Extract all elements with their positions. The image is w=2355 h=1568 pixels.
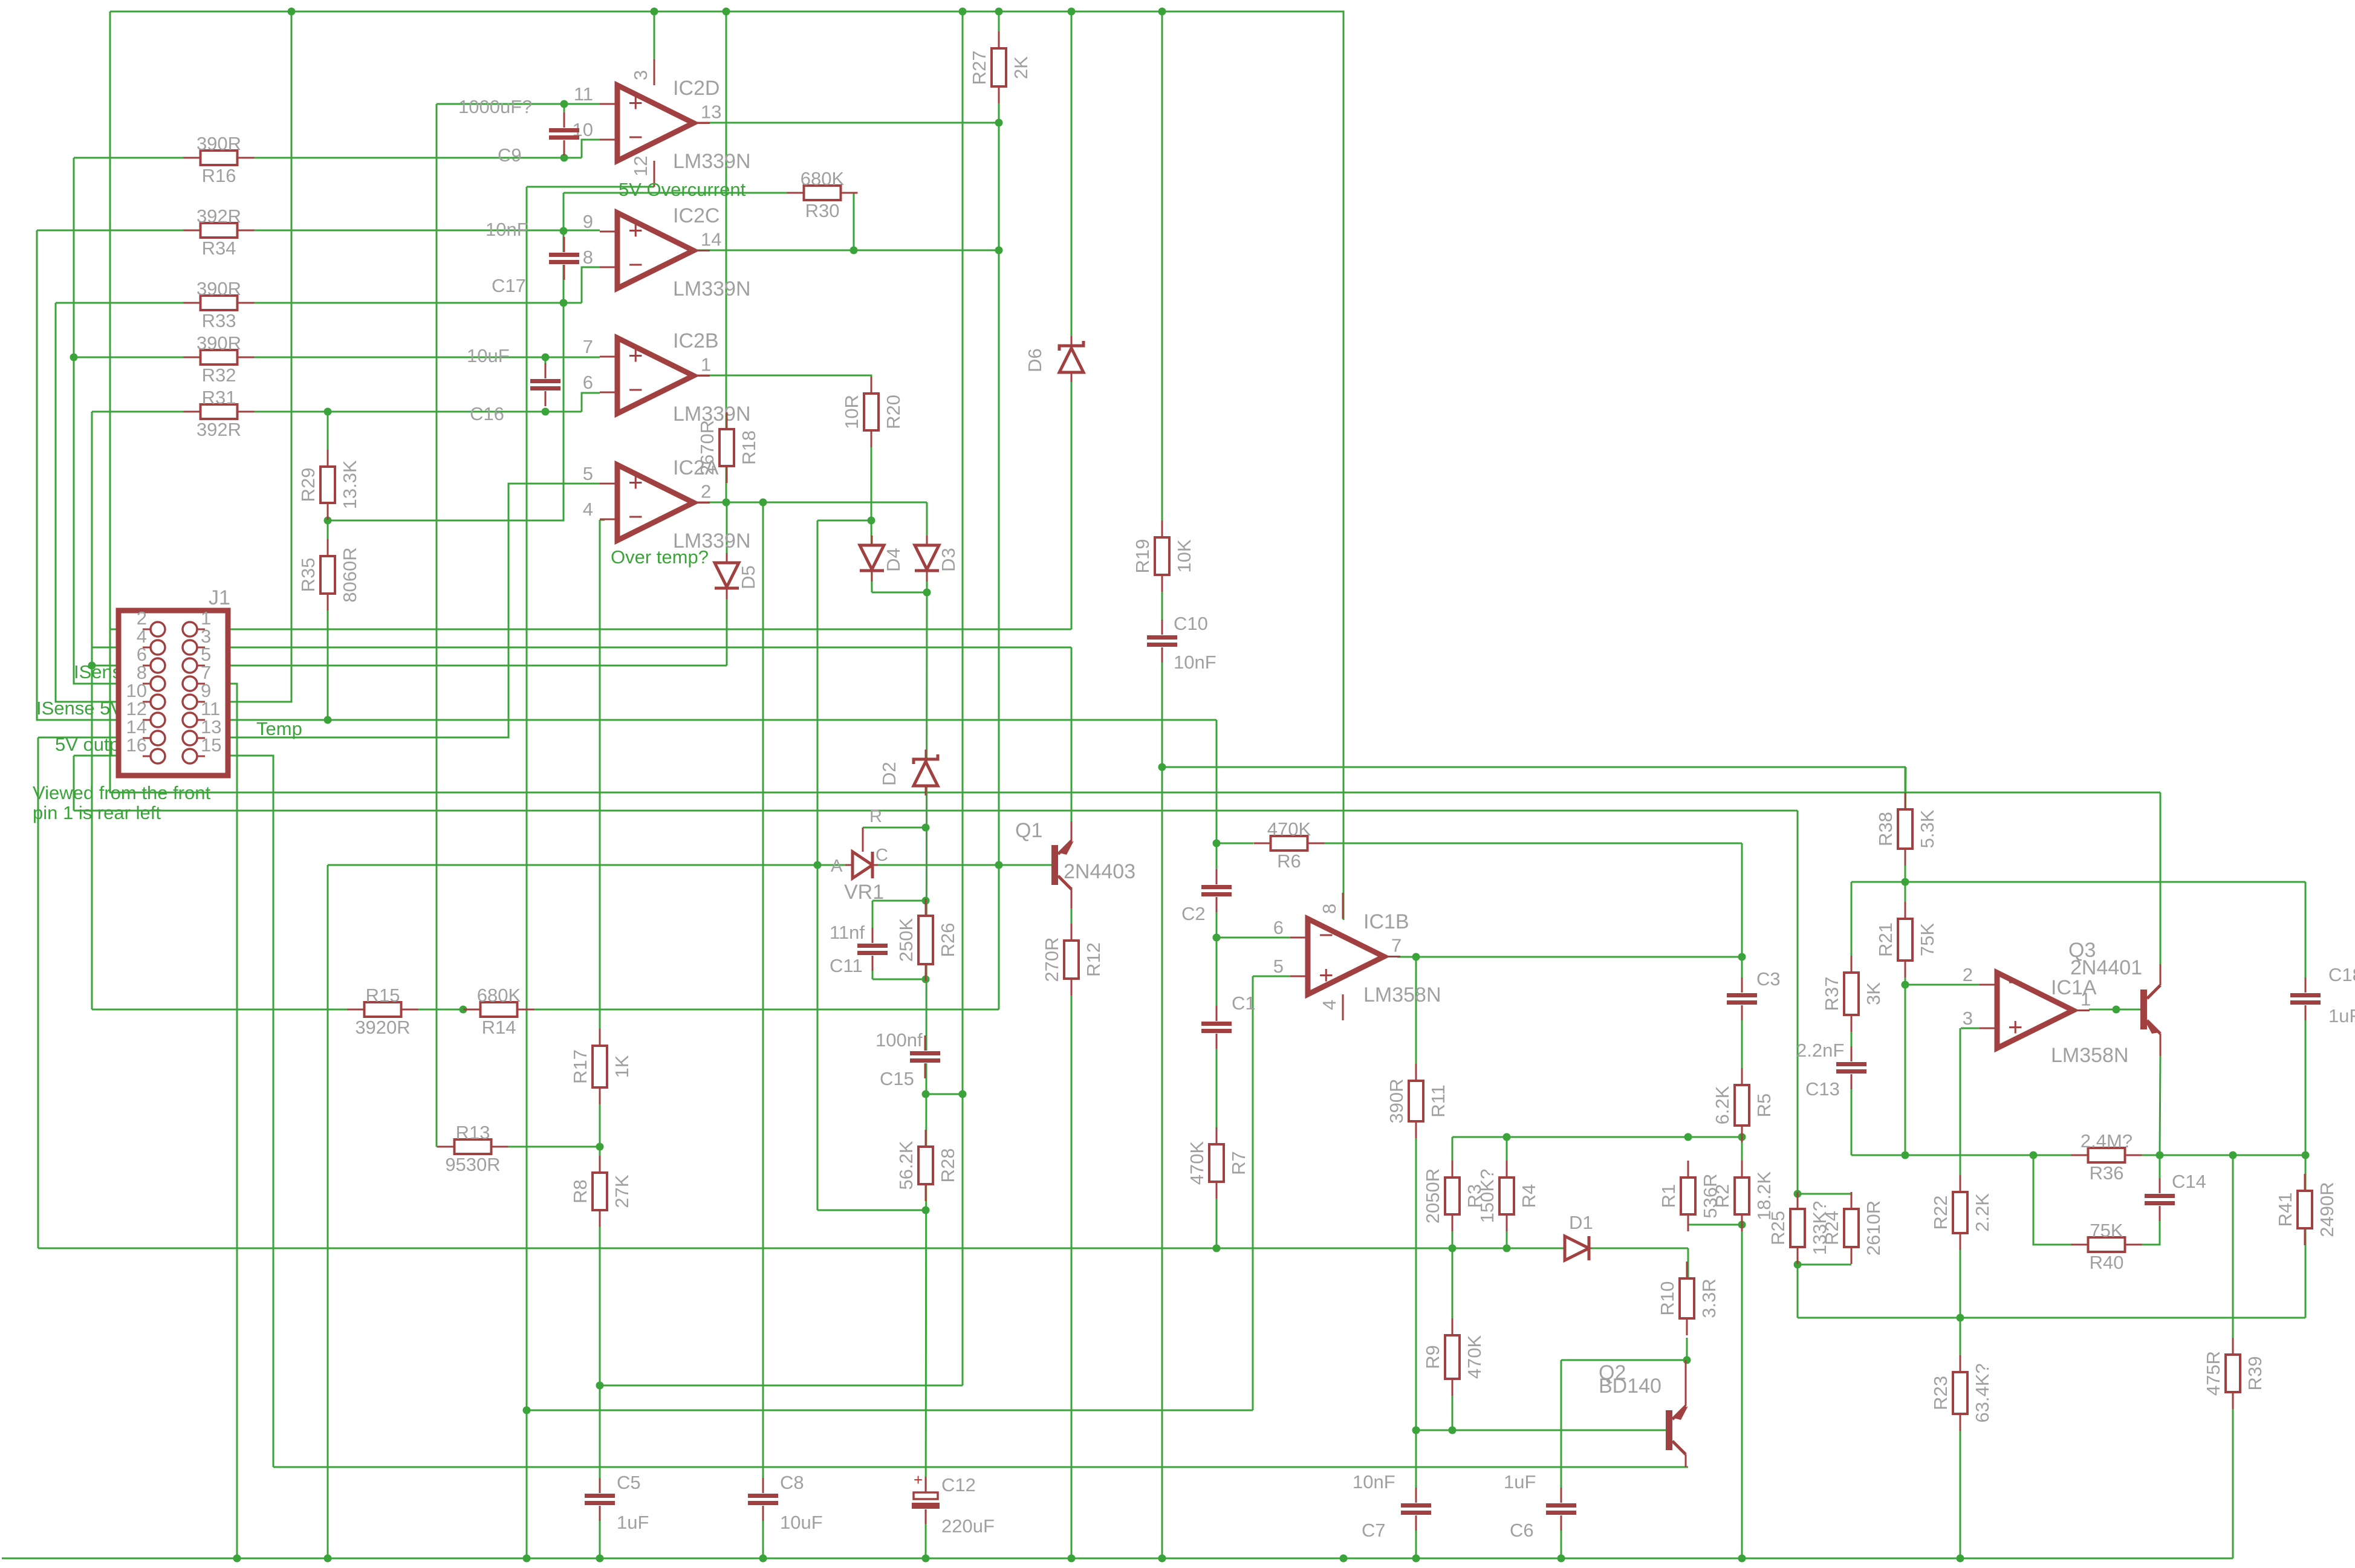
junction xyxy=(922,976,930,983)
wire GND rail y=2578 xyxy=(2,1558,2233,1560)
wire IC2 pin12 row y=309 xyxy=(527,186,654,188)
svg-text:−: − xyxy=(1319,921,1334,949)
junction xyxy=(995,861,1003,869)
wire Q2 emitter row y=2427 xyxy=(273,1466,1688,1468)
resistor R3 xyxy=(1422,1161,1485,1231)
resistor R25 xyxy=(1767,1192,1830,1264)
svg-text:Viewed from the front: Viewed from the front xyxy=(33,782,210,803)
svg-text:Temp: Temp xyxy=(256,718,302,739)
wire x=992 down R17/R8/C5 xyxy=(599,520,601,1558)
svg-text:390R: 390R xyxy=(197,133,241,154)
svg-text:392R: 392R xyxy=(197,206,241,227)
svg-text:2670R: 2670R xyxy=(697,420,718,475)
svg-text:C1: C1 xyxy=(1232,993,1256,1014)
svg-text:16: 16 xyxy=(126,734,147,756)
svg-text:390R: 390R xyxy=(197,278,241,299)
svg-text:D4: D4 xyxy=(883,548,904,572)
wire x=3813 C18/R41 column xyxy=(2305,882,2307,1318)
svg-text:IC1A: IC1A xyxy=(2051,976,2097,999)
svg-text:R34: R34 xyxy=(202,238,236,259)
op-amp IC2D power pins 3/12 xyxy=(630,59,654,187)
junction xyxy=(88,662,96,670)
resistor R17 xyxy=(570,1029,632,1104)
junction xyxy=(759,1555,767,1563)
svg-text:392R: 392R xyxy=(197,419,241,440)
svg-text:5V Overcurrent: 5V Overcurrent xyxy=(619,179,746,200)
svg-text:6: 6 xyxy=(583,372,593,393)
resistor R21 xyxy=(1875,902,1938,977)
svg-text:680K: 680K xyxy=(801,168,845,189)
svg-text:680K: 680K xyxy=(477,985,521,1006)
svg-text:1: 1 xyxy=(701,354,711,375)
junction xyxy=(1158,1555,1166,1563)
svg-text:14: 14 xyxy=(701,229,721,250)
svg-text:pin 1 is rear left: pin 1 is rear left xyxy=(33,802,161,823)
wire x=542 R29/R35 column xyxy=(327,412,329,720)
junction xyxy=(922,1207,930,1214)
op-amp IC2C comparator xyxy=(583,204,751,300)
wire VR1 ref to x=1531 xyxy=(863,827,926,829)
wire R6 right long y=1395 xyxy=(1324,843,1742,844)
svg-text:C13: C13 xyxy=(1805,1078,1840,1100)
op-amp IC1B xyxy=(1273,910,1441,1006)
svg-text:R8: R8 xyxy=(570,1179,591,1204)
resistor R8 xyxy=(570,1156,632,1227)
svg-text:11: 11 xyxy=(574,83,593,105)
wire x=871 down to GND rail xyxy=(526,187,528,1558)
svg-text:R21: R21 xyxy=(1875,922,1896,957)
svg-text:R29: R29 xyxy=(297,468,319,502)
wire IC2B out to R20 xyxy=(693,375,871,520)
resistor R4 xyxy=(1476,1161,1539,1231)
svg-text:1uF: 1uF xyxy=(1504,1471,1536,1492)
svg-text:C6: C6 xyxy=(1510,1520,1534,1541)
wire x=1262 down to C8/GND xyxy=(762,502,764,1558)
svg-text:220uF: 220uF xyxy=(941,1515,995,1537)
diode D1 xyxy=(1565,1212,1593,1260)
wire J1 pin1 y=1041 xyxy=(198,629,1071,630)
junction xyxy=(1503,1133,1511,1141)
resistor R1 xyxy=(1658,1161,1721,1231)
svg-text:C5: C5 xyxy=(617,1472,641,1493)
wire IC1A out to Q3 base xyxy=(2089,1009,2140,1011)
wire Q2 base row y=2366 xyxy=(1416,1430,1666,1431)
wire IC2B pin6 row xyxy=(1216,937,1290,939)
junction xyxy=(324,716,332,724)
svg-text:10K: 10K xyxy=(1174,539,1195,572)
wire J1 pin7 to GND rail xyxy=(198,684,237,1558)
svg-text:R10: R10 xyxy=(1657,1281,1678,1316)
svg-text:R15: R15 xyxy=(366,985,400,1006)
wire IC2D output y=203 xyxy=(693,122,999,124)
junction xyxy=(922,897,930,905)
svg-text:+: + xyxy=(628,216,643,244)
svg-text:2.4M?: 2.4M? xyxy=(2081,1130,2132,1152)
junction xyxy=(1683,1356,1691,1364)
capacitor C15 xyxy=(910,1035,940,1078)
svg-text:1000uF?: 1000uF? xyxy=(458,96,532,117)
junction xyxy=(723,499,730,507)
wire IC2A pin4 stub xyxy=(600,519,605,521)
wire x=1531 long column xyxy=(926,592,927,1558)
junction xyxy=(1902,878,1909,886)
resistor R37 xyxy=(1821,956,1884,1032)
svg-text:1uF: 1uF xyxy=(2328,1005,2355,1026)
svg-text:10nF: 10nF xyxy=(1174,652,1216,673)
svg-text:D5: D5 xyxy=(738,565,759,589)
resistor R38 xyxy=(1875,792,1938,866)
wire R28 bottom row y=2002 xyxy=(817,1210,926,1211)
svg-text:2.2K: 2.2K xyxy=(1972,1193,1993,1232)
svg-text:R18: R18 xyxy=(738,430,759,465)
connector J1 xyxy=(119,611,228,776)
wire IC2D pin11 y=172 xyxy=(437,103,600,105)
svg-text:9: 9 xyxy=(583,211,593,232)
svg-text:R12: R12 xyxy=(1083,942,1104,977)
svg-text:D6: D6 xyxy=(1024,348,1045,372)
svg-text:R2: R2 xyxy=(1712,1184,1733,1208)
capacitor C13 xyxy=(1836,1046,1866,1089)
wire to R10 top xyxy=(1687,1248,1689,1278)
wire x=542b down to GND xyxy=(327,865,329,1558)
svg-text:C: C xyxy=(875,846,888,865)
svg-text:LM339N: LM339N xyxy=(673,277,751,300)
wire D4/D3 bottom join xyxy=(872,592,927,594)
wire VR1 anode row y=1431 xyxy=(328,864,845,866)
junction xyxy=(560,100,568,108)
capacitor C11 xyxy=(857,928,888,971)
svg-text:J1: J1 xyxy=(209,586,230,609)
wire x=3242 R22/R23 column xyxy=(1960,1028,1961,1558)
svg-text:−: − xyxy=(2008,968,2023,996)
wire J1 pin16 stub xyxy=(74,755,151,757)
svg-text:5: 5 xyxy=(1273,956,1284,977)
resistor R22 xyxy=(1930,1175,1993,1250)
svg-text:C16: C16 xyxy=(470,403,504,424)
transistor Q2 BD140 xyxy=(1599,1360,1688,1467)
wire R1/R2 bottoms xyxy=(1688,1224,1742,1226)
svg-text:63.4K?: 63.4K? xyxy=(1972,1363,1993,1422)
junction xyxy=(233,1555,241,1563)
svg-text:−: − xyxy=(628,123,643,151)
svg-text:6: 6 xyxy=(1273,917,1284,938)
wire R18 column x=1201 xyxy=(726,11,727,502)
svg-text:R28: R28 xyxy=(937,1148,958,1183)
junction xyxy=(560,227,568,235)
svg-text:−: − xyxy=(628,375,643,404)
junction xyxy=(1738,1133,1746,1141)
junction xyxy=(959,1090,967,1098)
resistor R12 xyxy=(1041,924,1104,996)
wire y=2333 row xyxy=(527,1410,1253,1411)
capacitor C1 xyxy=(1201,993,1256,1049)
wire y=861 to x=932 riser xyxy=(328,193,564,520)
transistor Q1 2N4403 xyxy=(1015,819,1135,909)
svg-text:3: 3 xyxy=(1963,1008,1973,1029)
wire x=1592 long column xyxy=(962,11,964,1385)
wire R38 top link xyxy=(1905,767,1906,849)
resistor R24 xyxy=(1821,1192,1884,1264)
junction xyxy=(922,1555,930,1563)
svg-text:1uF: 1uF xyxy=(617,1512,649,1533)
svg-text:+: + xyxy=(628,341,643,369)
svg-text:R: R xyxy=(869,807,882,826)
junction xyxy=(1213,934,1221,942)
wire step to IC2C pin8 xyxy=(582,267,600,303)
svg-text:250K: 250K xyxy=(895,918,917,962)
wire x=2072 down xyxy=(1252,976,1254,1410)
svg-text:R26: R26 xyxy=(937,923,958,957)
junction xyxy=(1558,1555,1565,1563)
wire R40/C14 link xyxy=(2033,1155,2160,1245)
wire x=152 down to R15 row xyxy=(91,412,93,1009)
capacitor C17 xyxy=(486,219,579,296)
junction xyxy=(1213,1245,1221,1252)
junction xyxy=(959,8,967,16)
svg-text:9530R: 9530R xyxy=(445,1154,500,1175)
junction xyxy=(324,1555,332,1563)
junction xyxy=(995,247,1003,254)
wire C11 top pin xyxy=(872,901,874,931)
junction xyxy=(651,8,658,16)
resistor R2 xyxy=(1712,1161,1775,1231)
wire to D3 xyxy=(926,502,928,592)
junction xyxy=(1449,1427,1457,1434)
wire 5V-output row y=1341 xyxy=(74,810,1798,812)
svg-text:C12: C12 xyxy=(941,1474,976,1495)
junction xyxy=(1957,1555,1964,1563)
svg-text:−: − xyxy=(628,250,643,279)
wire x=2012 C2/C1/R7 column xyxy=(1216,720,1218,1248)
svg-text:C10: C10 xyxy=(1174,613,1208,634)
svg-text:11nf: 11nf xyxy=(830,922,865,943)
svg-text:R25: R25 xyxy=(1767,1211,1788,1245)
wire VCC left drop x=182 xyxy=(109,11,111,792)
svg-text:R32: R32 xyxy=(202,364,236,386)
wire IC1B output y=1583 xyxy=(1397,956,1742,958)
svg-text:R27: R27 xyxy=(969,51,990,85)
svg-text:R16: R16 xyxy=(202,165,236,186)
wire x=2342 R11/C7 column xyxy=(1415,957,1417,1558)
wire J1 pin9 up to bus xyxy=(198,11,291,702)
resistor R40 xyxy=(2071,1220,2142,1273)
svg-text:VR1: VR1 xyxy=(844,881,884,904)
wire IC2A output y=831 xyxy=(693,502,927,504)
wire C17 top pin link xyxy=(563,231,565,241)
junction xyxy=(1794,1261,1802,1269)
op-amp IC2A comparator xyxy=(583,456,751,552)
wire J1 pin2 stub xyxy=(110,629,151,630)
wire x=722 down to R13 xyxy=(436,104,438,1147)
junction xyxy=(596,1555,604,1563)
wire R15/R14 row y=1670 xyxy=(92,1009,999,1011)
resistor R35 xyxy=(297,539,360,611)
svg-text:10uF: 10uF xyxy=(467,345,510,366)
junction xyxy=(324,517,332,525)
svg-text:R35: R35 xyxy=(297,558,319,592)
junction xyxy=(1738,1555,1746,1563)
svg-text:+: + xyxy=(628,88,643,117)
svg-text:R24: R24 xyxy=(1821,1211,1842,1245)
wire x=122b down xyxy=(73,756,75,811)
wire x=2582 C6 column xyxy=(1561,1360,1562,1558)
junction xyxy=(1503,1245,1511,1252)
junction xyxy=(923,589,931,597)
wire x=2492 R4 column xyxy=(1506,1137,1508,1248)
wire step to IC2B pin6 xyxy=(582,393,600,412)
wire R20 bottom to D4 xyxy=(871,520,872,592)
wire J1 pin6 stub xyxy=(92,665,151,667)
resistor R16 xyxy=(184,133,255,186)
junction xyxy=(1213,840,1221,847)
resistor R36 xyxy=(2071,1130,2142,1184)
wire VCC top bus + right drop to IC1B pin8 xyxy=(110,11,1343,920)
capacitor C18 xyxy=(2290,964,2355,1026)
svg-text:470K: 470K xyxy=(1464,1335,1485,1379)
svg-text:R6: R6 xyxy=(1277,850,1301,872)
op-amp IC1A xyxy=(1963,964,2091,1048)
wire J1 pin14 stub xyxy=(38,737,151,739)
svg-text:R41: R41 xyxy=(2275,1193,2296,1227)
wire D6 column x=1772 xyxy=(1071,11,1073,629)
junction xyxy=(560,154,568,162)
capacitor C16 xyxy=(467,345,560,424)
capacitor C9 xyxy=(458,96,579,166)
op-amp IC2D comparator xyxy=(573,77,751,173)
svg-text:2.2nF: 2.2nF xyxy=(1796,1040,1844,1061)
svg-text:C3: C3 xyxy=(1756,968,1781,990)
wire C16 top pin link xyxy=(545,357,547,367)
wire ISense R16 row y=261 xyxy=(74,157,582,159)
resistor R30 xyxy=(787,168,858,221)
junction xyxy=(1412,953,1420,961)
svg-text:390R: 390R xyxy=(1386,1078,1407,1123)
resistor R41 xyxy=(2275,1174,2337,1245)
wire J1 pin4 stub xyxy=(92,647,151,649)
capacitor C8 xyxy=(748,1472,823,1533)
svg-text:−: − xyxy=(628,502,643,531)
junction xyxy=(560,299,568,307)
capacitor C6 xyxy=(1504,1471,1576,1541)
junction xyxy=(1449,1245,1457,1252)
junction xyxy=(1158,8,1166,16)
svg-text:LM358N: LM358N xyxy=(1363,983,1441,1006)
svg-text:4: 4 xyxy=(583,499,593,520)
resistor R26 xyxy=(895,899,958,981)
wire C11 top join xyxy=(872,900,926,902)
svg-text:100nf: 100nf xyxy=(875,1029,923,1051)
resistor R23 xyxy=(1930,1355,1993,1431)
svg-text:2K: 2K xyxy=(1010,56,1031,79)
svg-text:R39: R39 xyxy=(2244,1356,2266,1391)
svg-text:8060R: 8060R xyxy=(339,547,360,602)
wire IC2 pin3 to bus xyxy=(654,11,655,84)
svg-text:C11: C11 xyxy=(830,955,863,976)
junction xyxy=(2229,1152,2237,1159)
resistor R39 xyxy=(2203,1338,2266,1409)
svg-text:10uF: 10uF xyxy=(780,1512,823,1533)
wire y=2292 row xyxy=(600,1385,963,1387)
svg-text:10R: 10R xyxy=(841,395,862,429)
resistor R29 xyxy=(297,450,360,520)
svg-text:3920R: 3920R xyxy=(355,1017,410,1038)
svg-text:10nF: 10nF xyxy=(486,219,528,240)
svg-text:2: 2 xyxy=(1963,964,1973,985)
resistor R33 xyxy=(184,278,255,331)
wire x=63 down to D1 row xyxy=(37,737,39,1248)
wire ISense5V R34 row to IC2C pin9 xyxy=(37,230,600,232)
svg-text:+: + xyxy=(628,468,643,496)
wire R25/R24 bottoms xyxy=(1798,1264,1851,1266)
svg-text:R9: R9 xyxy=(1422,1345,1443,1369)
junction xyxy=(1738,1221,1746,1229)
junction xyxy=(1340,1555,1348,1563)
resistor R6 xyxy=(1254,818,1325,872)
svg-text:IC1B: IC1B xyxy=(1363,910,1409,933)
svg-text:R22: R22 xyxy=(1930,1196,1951,1230)
svg-text:C7: C7 xyxy=(1362,1520,1386,1541)
svg-text:3.3R: 3.3R xyxy=(1698,1278,1720,1318)
wire x=92 to J1 pin10 xyxy=(56,303,151,702)
wire x=2973 column xyxy=(1797,811,1799,1318)
junction xyxy=(324,408,332,416)
wire x=1352 down xyxy=(817,520,819,1210)
wire J1 pin3 y=1071 xyxy=(198,647,1071,649)
wire x=3693 R39 column xyxy=(2232,1155,2234,1558)
svg-text:LM358N: LM358N xyxy=(2051,1044,2129,1067)
wire C14 top pin link xyxy=(2159,1155,2161,1194)
svg-text:7: 7 xyxy=(583,336,593,357)
resistor R32 xyxy=(184,332,255,386)
junction xyxy=(2302,1152,2310,1159)
svg-text:390R: 390R xyxy=(197,332,241,354)
junction xyxy=(542,408,550,416)
svg-text:15: 15 xyxy=(201,734,221,756)
junction xyxy=(1684,1133,1692,1141)
wire R13 row y=1897 xyxy=(437,1146,600,1148)
wire y=861 D4 left xyxy=(817,520,871,522)
svg-text:R38: R38 xyxy=(1875,812,1896,846)
svg-text:270R: 270R xyxy=(1041,937,1062,982)
wire R19/C10 column x=1922 xyxy=(1161,11,1163,1558)
wire x=3062 R37/C13 column xyxy=(1851,882,1853,1155)
wire D1 right corner down xyxy=(1687,1248,1689,1262)
capacitor C10 xyxy=(1147,620,1177,663)
resistor R9 xyxy=(1422,1318,1485,1396)
wire x=61 to J1 pin12 xyxy=(37,230,151,720)
junction xyxy=(868,517,875,525)
capacitor C14 xyxy=(2145,1171,2206,1221)
wire Q2 collector row y=2250 xyxy=(1561,1359,1687,1361)
svg-text:7: 7 xyxy=(1391,935,1402,956)
svg-text:+: + xyxy=(914,1471,923,1489)
svg-text:27K: 27K xyxy=(611,1174,632,1208)
wire C11 bottom pin xyxy=(872,965,874,979)
junction xyxy=(70,354,78,361)
wire VCC horizontal y=1311 xyxy=(109,792,2160,794)
svg-text:C14: C14 xyxy=(2172,1171,2206,1192)
svg-text:R5: R5 xyxy=(1753,1093,1775,1118)
svg-text:IC2B: IC2B xyxy=(673,329,719,352)
junction xyxy=(460,1006,467,1014)
svg-text:2050R: 2050R xyxy=(1422,1168,1443,1223)
junction xyxy=(523,1407,531,1414)
svg-text:56.2K: 56.2K xyxy=(895,1141,917,1190)
junction xyxy=(1068,1555,1076,1563)
svg-text:6.2K: 6.2K xyxy=(1712,1086,1733,1124)
svg-text:R20: R20 xyxy=(883,395,904,429)
svg-text:BD140: BD140 xyxy=(1599,1375,1661,1398)
